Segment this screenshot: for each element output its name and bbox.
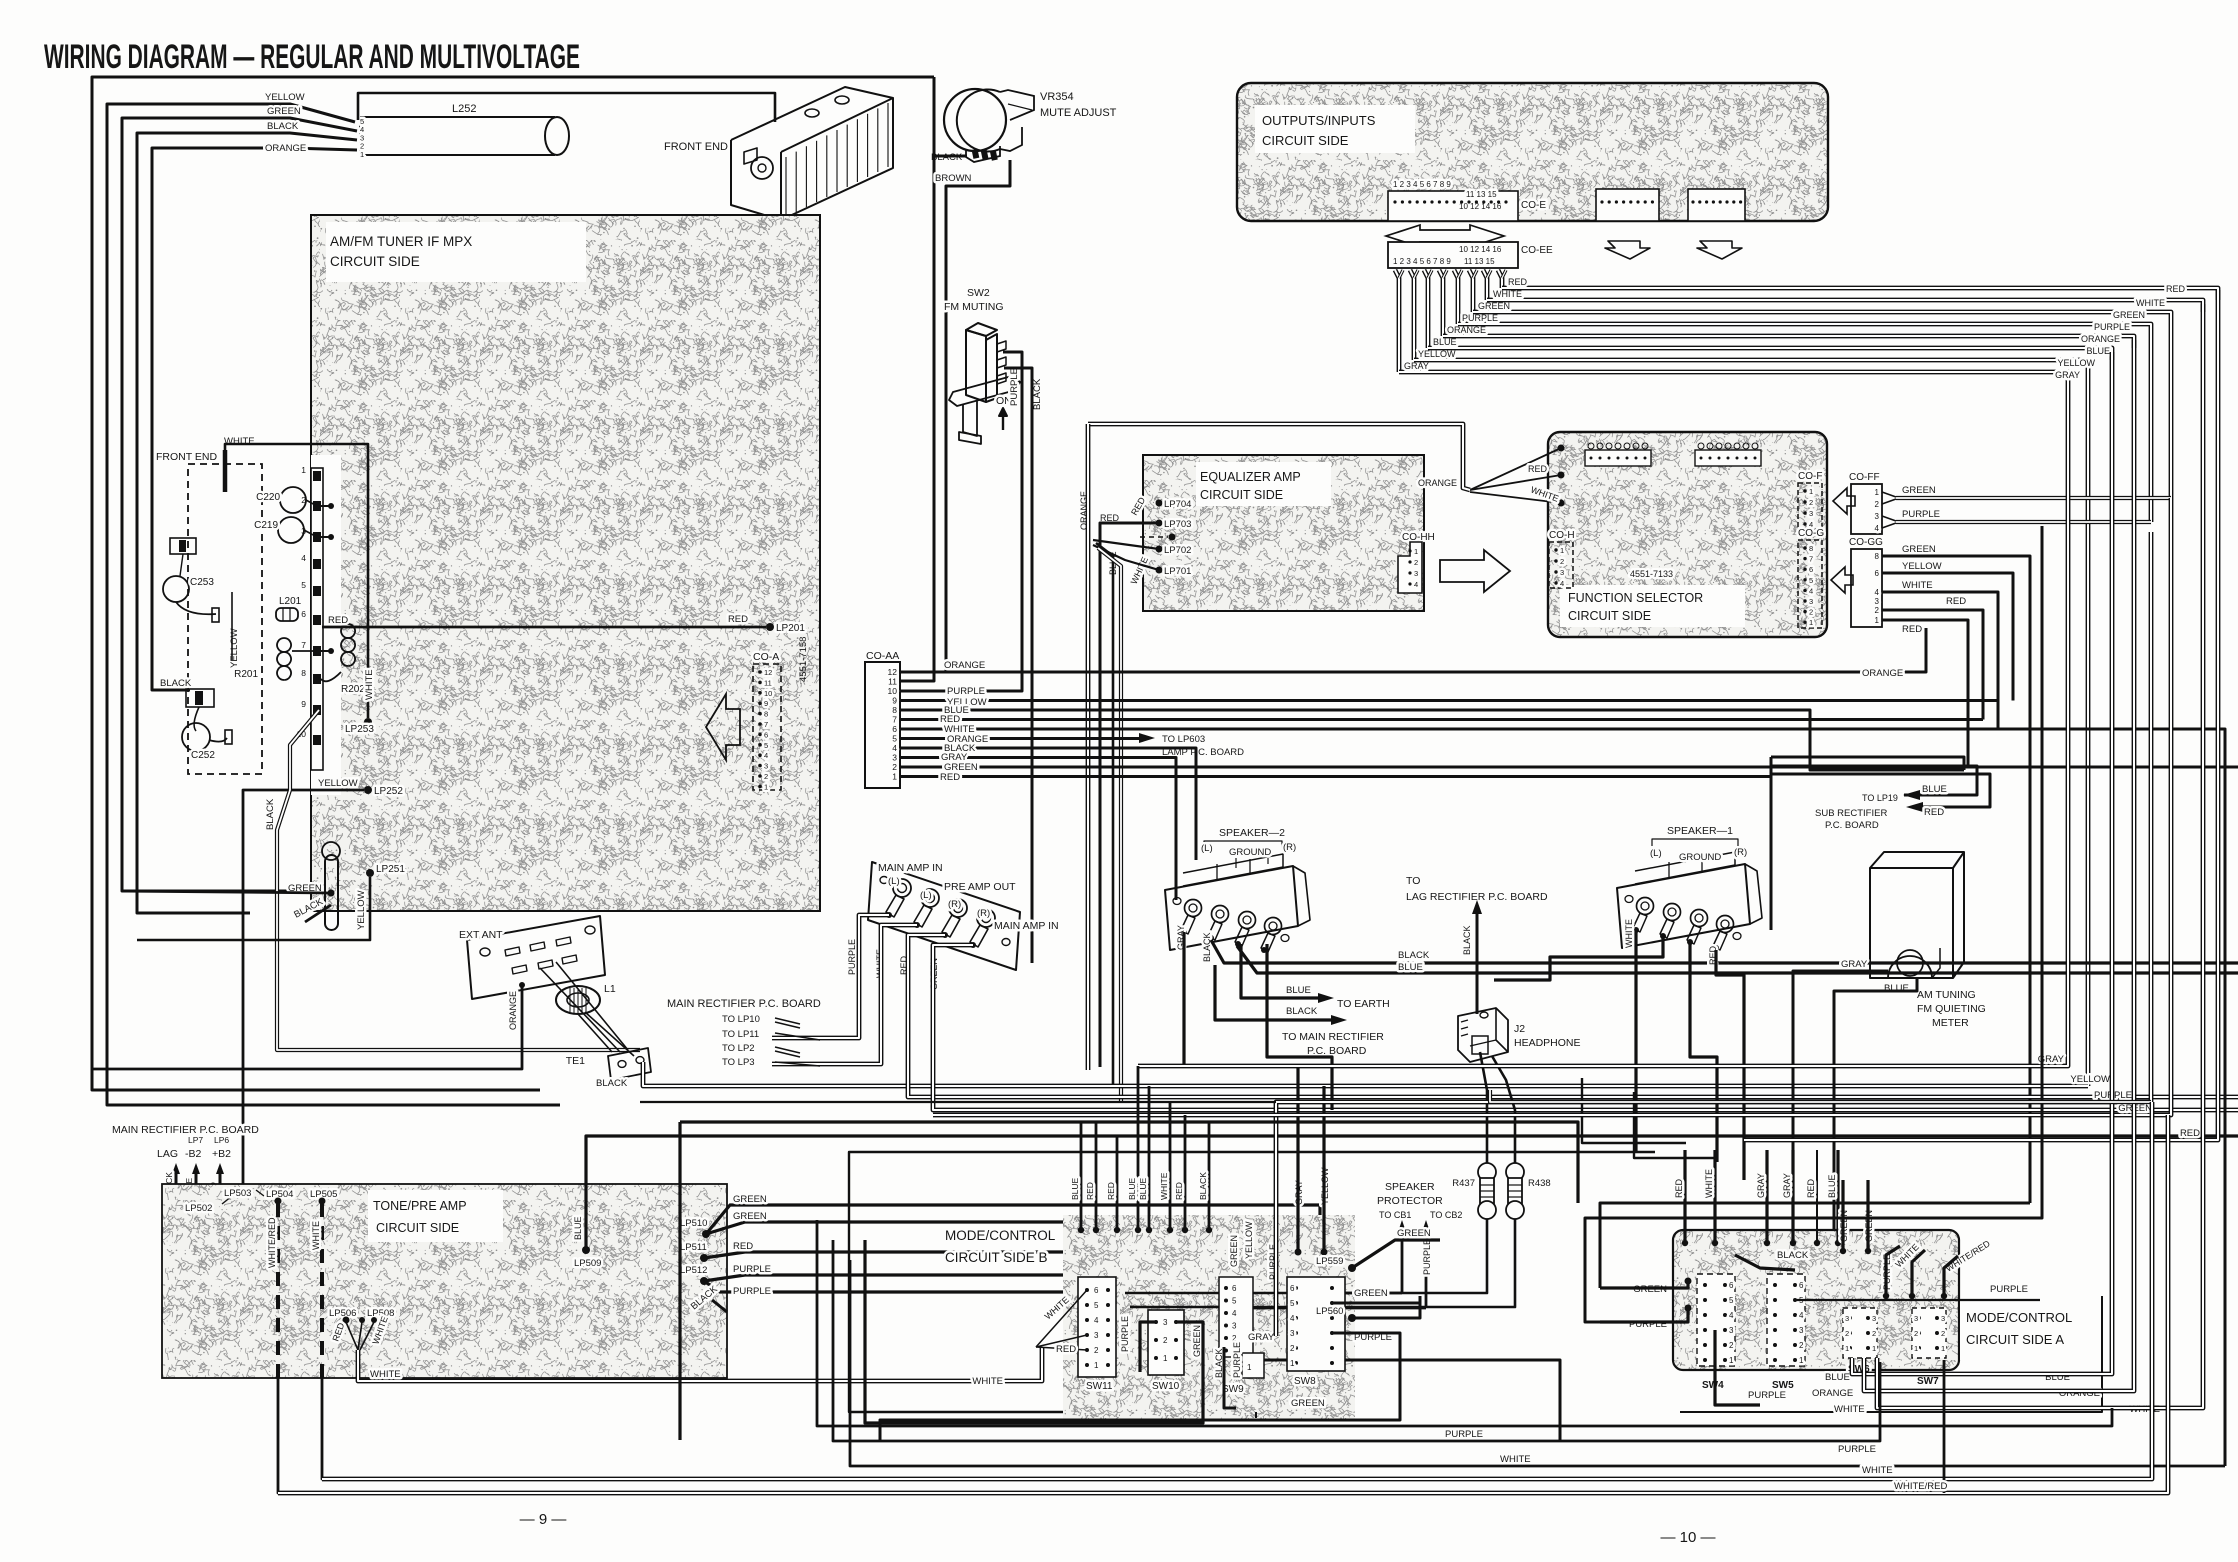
- svg-text:(L): (L): [1201, 843, 1213, 854]
- svg-text:GROUND: GROUND: [1229, 847, 1271, 858]
- capacitor C252: [182, 723, 210, 751]
- svg-text:AM TUNING: AM TUNING: [1917, 989, 1976, 1001]
- svg-text:GREEN: GREEN: [733, 1194, 767, 1205]
- svg-text:BLUE: BLUE: [1827, 1174, 1837, 1198]
- thick bus y1122: [680, 1122, 1578, 1203]
- wire white CO-AA pin6: [900, 729, 2225, 1466]
- svg-text:4551-7133: 4551-7133: [1630, 569, 1673, 579]
- wire yellow CO-GG: [1882, 573, 2013, 701]
- block arrow right: [1440, 550, 1510, 592]
- wire red CO-AA pin1: [900, 775, 1771, 778]
- wire red jack3: [908, 935, 2238, 1097]
- svg-text:1: 1: [1290, 1359, 1295, 1368]
- svg-text:C252: C252: [191, 750, 215, 761]
- svg-text:RED: RED: [328, 615, 348, 626]
- svg-text:BLACK: BLACK: [1198, 1172, 1208, 1200]
- white wire fan lp506-508: [346, 1322, 358, 1350]
- svg-text:3: 3: [1729, 1326, 1734, 1335]
- svg-text:6: 6: [764, 730, 768, 739]
- svg-text:WHITE: WHITE: [1493, 289, 1522, 299]
- svg-text:GRAY: GRAY: [1841, 959, 1868, 970]
- svg-text:PURPLE: PURPLE: [1009, 368, 1020, 406]
- white wire front-end pin to LP253: [223, 450, 228, 492]
- svg-text:+B2: +B2: [212, 1148, 231, 1160]
- svg-text:BLUE: BLUE: [1825, 1372, 1850, 1383]
- wire gray from CO-EE: [1395, 270, 1399, 372]
- svg-text:6: 6: [892, 724, 897, 734]
- svg-text:CIRCUIT SIDE: CIRCUIT SIDE: [1568, 609, 1651, 623]
- svg-text:PURPLE: PURPLE: [947, 686, 985, 697]
- svg-text:PURPLE: PURPLE: [733, 1264, 771, 1275]
- svg-text:ORANGE: ORANGE: [1447, 325, 1486, 335]
- svg-text:6: 6: [1094, 1286, 1099, 1295]
- svg-text:GREEN: GREEN: [2113, 310, 2145, 320]
- capacitor C219: [278, 517, 304, 543]
- svg-text:2: 2: [1560, 557, 1564, 566]
- svg-text:2: 2: [1809, 608, 1813, 617]
- rca jack 1: [893, 879, 911, 897]
- wire black CO-AA pin4: [900, 748, 1196, 860]
- svg-text:BLUE: BLUE: [2086, 346, 2110, 356]
- wire purple SW2 to CO-AA pin10: [900, 352, 1022, 691]
- wire red CO-GG pin1: [1882, 620, 1968, 767]
- svg-text:RED: RED: [1674, 1178, 1684, 1198]
- svg-text:RED: RED: [1806, 1178, 1816, 1198]
- mode/control B board texture: [1063, 1215, 1355, 1420]
- svg-text:LP6: LP6: [214, 1135, 229, 1145]
- svg-text:12: 12: [764, 668, 772, 677]
- ext ant bracket plate: [467, 916, 605, 999]
- wire green jack4: [933, 945, 2238, 1110]
- svg-text:1: 1: [1809, 487, 1813, 496]
- svg-text:2: 2: [764, 772, 768, 781]
- svg-text:2: 2: [1290, 1344, 1295, 1353]
- wire gray CO-AA pin3: [900, 758, 1176, 901]
- svg-text:(R): (R): [948, 899, 961, 910]
- wire down left: [1770, 757, 1773, 930]
- svg-text:BLUE: BLUE: [1922, 784, 1947, 795]
- wire purple CO-FF: [1882, 516, 1896, 521]
- svg-text:TO CB1: TO CB1: [1379, 1210, 1411, 1220]
- wire black to earth arrow: [1215, 965, 1332, 1020]
- wire white CO-GG: [1882, 592, 1998, 729]
- svg-text:2: 2: [1914, 1329, 1918, 1338]
- svg-text:YELLOW: YELLOW: [1244, 1221, 1254, 1259]
- svg-text:C253: C253: [190, 577, 214, 588]
- svg-text:CO-AA: CO-AA: [866, 650, 899, 662]
- svg-text:2: 2: [1414, 558, 1418, 567]
- svg-text:GRAY: GRAY: [1782, 1173, 1792, 1198]
- svg-text:MAIN AMP IN: MAIN AMP IN: [994, 920, 1059, 932]
- lamp LP701: [1156, 567, 1163, 574]
- wires sw5 to right: [1795, 1299, 2040, 1301]
- wire blue to earth arrow: [1241, 944, 1319, 998]
- svg-text:11 13 15: 11 13 15: [1466, 190, 1497, 199]
- wire green sw8 pin5: [1332, 1296, 1420, 1303]
- svg-text:PURPLE: PURPLE: [733, 1286, 771, 1297]
- svg-text:RED: RED: [2166, 284, 2186, 294]
- svg-text:LAG: LAG: [157, 1148, 178, 1160]
- connector CO-E: [1388, 191, 1518, 221]
- svg-text:3: 3: [1875, 597, 1880, 606]
- svg-text:SUB RECTIFIER: SUB RECTIFIER: [1815, 808, 1887, 819]
- svg-text:RED: RED: [1085, 1182, 1095, 1200]
- svg-text:WHITE: WHITE: [1624, 919, 1634, 948]
- svg-text:1: 1: [892, 772, 897, 782]
- svg-text:1: 1: [360, 150, 364, 159]
- front end dashed box: [188, 464, 262, 774]
- svg-text:4: 4: [1290, 1314, 1295, 1323]
- svg-text:CO-H: CO-H: [1549, 530, 1575, 541]
- board mode/control circuit side A: [1673, 1230, 1959, 1370]
- svg-text:BLUE: BLUE: [1398, 962, 1423, 973]
- svg-text:SPEAKER—2: SPEAKER—2: [1219, 827, 1285, 839]
- svg-text:PURPLE: PURPLE: [1422, 1239, 1432, 1275]
- svg-text:WHITE: WHITE: [311, 1221, 321, 1250]
- svg-text:WHITE/RED: WHITE/RED: [1894, 1481, 1947, 1492]
- wire red pin6 to LP201: [322, 626, 766, 629]
- svg-text:LP703: LP703: [1164, 519, 1191, 530]
- block arrow left: [706, 694, 740, 760]
- connector SW4: [1697, 1274, 1735, 1366]
- svg-text:R438: R438: [1528, 1178, 1551, 1189]
- svg-text:4: 4: [301, 553, 306, 563]
- svg-text:GREEN: GREEN: [267, 106, 301, 117]
- svg-text:WHITE: WHITE: [1902, 580, 1933, 591]
- svg-text:6: 6: [1875, 569, 1880, 578]
- wire yellow lp251 down: [137, 877, 370, 940]
- svg-text:2: 2: [1875, 500, 1880, 509]
- wire green CO-AA pin2: [900, 766, 2238, 769]
- svg-text:3: 3: [1914, 1314, 1918, 1323]
- svg-text:CIRCUIT SIDE B: CIRCUIT SIDE B: [945, 1250, 1048, 1265]
- wire purple from CO-EE: [1454, 270, 1458, 324]
- svg-text:1: 1: [1799, 1356, 1804, 1365]
- wire red speaker1: [1716, 950, 1744, 1180]
- svg-text:1: 1: [1872, 1344, 1876, 1353]
- svg-text:2: 2: [1872, 1329, 1876, 1338]
- white fan wires SW11: [1036, 1290, 1087, 1347]
- svg-text:AM/FM TUNER IF MPX: AM/FM TUNER IF MPX: [330, 234, 472, 249]
- capacitor C253: [163, 576, 189, 602]
- wire green in: [1600, 1281, 1688, 1288]
- svg-text:5: 5: [1232, 1297, 1237, 1306]
- wire white from CO-EE: [1483, 270, 1487, 300]
- wire red right bundle: [1744, 290, 2218, 1140]
- svg-text:SW2: SW2: [967, 287, 990, 299]
- svg-text:4: 4: [1560, 579, 1564, 588]
- svg-text:LP252: LP252: [374, 786, 403, 797]
- svg-text:FUNCTION SELECTOR: FUNCTION SELECTOR: [1568, 591, 1703, 605]
- svg-text:GRAY: GRAY: [1248, 1332, 1275, 1343]
- svg-text:SW7: SW7: [1917, 1376, 1939, 1387]
- mode/control circuit side B outline box: [849, 1152, 1655, 1412]
- svg-text:BLACK: BLACK: [160, 678, 192, 689]
- svg-text:8: 8: [892, 705, 897, 715]
- svg-text:4: 4: [764, 751, 768, 760]
- svg-text:L201: L201: [279, 596, 302, 607]
- orange vertical wire at equalizer left: [1086, 424, 1091, 1070]
- dashed wire white/red: [276, 1203, 280, 1378]
- lamp LP560: [1348, 1314, 1356, 1322]
- wire orange to L252 pin2: [152, 148, 357, 690]
- svg-text:PROTECTOR: PROTECTOR: [1377, 1195, 1443, 1207]
- svg-text:TO EARTH: TO EARTH: [1337, 998, 1390, 1010]
- svg-text:GRAY: GRAY: [2055, 370, 2080, 380]
- svg-text:MAIN RECTIFIER P.C. BOARD: MAIN RECTIFIER P.C. BOARD: [112, 1124, 259, 1136]
- wire green lp510 b: [706, 1222, 1298, 1290]
- connector SW8: [1287, 1277, 1345, 1371]
- dashed trace: [1140, 536, 1168, 538]
- svg-text:LP560: LP560: [1316, 1306, 1343, 1317]
- svg-text:ORANGE: ORANGE: [508, 991, 518, 1030]
- svg-text:3: 3: [1809, 509, 1813, 518]
- svg-text:RED: RED: [733, 1241, 753, 1252]
- svg-text:10: 10: [888, 686, 898, 696]
- svg-text:WHITE: WHITE: [1862, 1465, 1893, 1476]
- svg-text:9: 9: [892, 696, 897, 706]
- svg-text:GREEN: GREEN: [1478, 301, 1510, 311]
- lamp LP510: [702, 1230, 710, 1238]
- svg-text:CO-G: CO-G: [1798, 528, 1824, 539]
- svg-text:LP506: LP506: [329, 1308, 356, 1319]
- wire headphone to right long: [1490, 1090, 2151, 1102]
- svg-text:HEADPHONE: HEADPHONE: [1514, 1037, 1581, 1049]
- bus white y1466: [850, 1260, 2225, 1466]
- lamp LP704: [1156, 500, 1163, 507]
- svg-text:(L): (L): [888, 876, 900, 887]
- svg-text:YELLOW: YELLOW: [318, 778, 358, 789]
- wire orange CO-AA pin12: [900, 628, 1926, 672]
- svg-text:YELLOW: YELLOW: [2057, 358, 2095, 368]
- wire blue meter: [1834, 978, 1917, 1230]
- svg-text:YELLOW: YELLOW: [356, 890, 367, 930]
- wire blue speaker2 to right: [1237, 946, 2238, 973]
- wire black SW2 down: [1004, 368, 1032, 963]
- block arrow up between CO-E and CO-EE: [1386, 225, 1504, 247]
- svg-text:BLUE: BLUE: [1070, 1177, 1080, 1200]
- svg-text:8: 8: [301, 668, 306, 678]
- svg-text:3: 3: [1163, 1318, 1168, 1327]
- wire blue lp509 up right: [586, 1136, 2238, 1250]
- wire harness loop outer: [92, 77, 934, 1090]
- svg-text:YELLOW: YELLOW: [229, 628, 240, 668]
- svg-text:2: 2: [892, 762, 897, 772]
- svg-text:WHITE: WHITE: [1834, 1404, 1865, 1415]
- top stub wires mode A: [1683, 1150, 1686, 1243]
- wire blue right bundle to mode A: [1852, 352, 2112, 1374]
- svg-text:12: 12: [888, 667, 898, 677]
- lamp LP702: [1156, 546, 1163, 553]
- fs connector strip 1: [1585, 450, 1651, 466]
- svg-text:WHITE: WHITE: [224, 436, 255, 447]
- svg-text:BLACK: BLACK: [1398, 950, 1430, 961]
- connector CO-EE: [1388, 242, 1518, 268]
- svg-text:3: 3: [1290, 1329, 1295, 1338]
- svg-text:11 13 15: 11 13 15: [1464, 257, 1495, 266]
- svg-text:WHITE: WHITE: [1704, 1169, 1714, 1198]
- svg-text:3: 3: [1875, 512, 1880, 521]
- wires sw9 region: [1224, 1347, 1236, 1408]
- wire gray sw8: [1296, 1066, 1299, 1252]
- svg-text:VR354: VR354: [1040, 91, 1074, 103]
- wire orange CO-AA pin5 to lamp pc board: [900, 737, 1140, 740]
- svg-text:LP502: LP502: [185, 1203, 212, 1214]
- wire purple in: [1600, 1308, 1688, 1322]
- svg-text:SPEAKER—1: SPEAKER—1: [1667, 825, 1733, 837]
- svg-text:YELLOW: YELLOW: [1902, 561, 1942, 572]
- arrow to CB2: [1425, 1230, 1428, 1308]
- wire orange ext ant: [93, 985, 522, 1069]
- svg-text:EQUALIZER AMP: EQUALIZER AMP: [1200, 470, 1301, 484]
- svg-text:1: 1: [1729, 1356, 1734, 1365]
- svg-text:CIRCUIT SIDE: CIRCUIT SIDE: [376, 1221, 459, 1235]
- svg-text:5: 5: [892, 734, 897, 744]
- wire black speaker2 to right: [1211, 940, 2238, 963]
- svg-text:2: 2: [1809, 498, 1813, 507]
- svg-text:BLACK: BLACK: [265, 798, 276, 830]
- wire yellow from CO-EE: [1410, 270, 1414, 360]
- wire yellow LP252: [243, 790, 364, 1198]
- svg-text:PURPLE: PURPLE: [1232, 1342, 1242, 1378]
- svg-text:MUTE ADJUST: MUTE ADJUST: [1040, 107, 1117, 119]
- svg-text:CO-E: CO-E: [1521, 200, 1546, 211]
- svg-text:4: 4: [1729, 1311, 1734, 1320]
- svg-text:1: 1: [1163, 1354, 1168, 1363]
- svg-text:4: 4: [1094, 1316, 1099, 1325]
- svg-text:TO LP10: TO LP10: [722, 1014, 760, 1025]
- svg-text:RED: RED: [1106, 1182, 1116, 1200]
- svg-text:TO MAIN RECTIFIER: TO MAIN RECTIFIER: [1282, 1031, 1384, 1043]
- svg-text:1: 1: [1914, 1344, 1918, 1353]
- svg-text:RED: RED: [1174, 1182, 1184, 1200]
- svg-text:5: 5: [764, 741, 768, 750]
- white wire pins 9-10 down (black outline): [277, 710, 640, 1050]
- svg-text:LP559: LP559: [1316, 1256, 1343, 1267]
- svg-text:2: 2: [1094, 1346, 1099, 1355]
- block arrow down 2: [1697, 241, 1742, 259]
- lamp LP703: [1156, 520, 1163, 527]
- svg-text:MAIN AMP IN: MAIN AMP IN: [878, 862, 943, 874]
- connector strip pins 1-10: [311, 468, 323, 770]
- svg-text:5: 5: [1094, 1301, 1099, 1310]
- black wire bundle from sw5: [1735, 1255, 1795, 1270]
- svg-text:4: 4: [1232, 1309, 1237, 1318]
- svg-text:1: 1: [764, 782, 768, 791]
- wire green lp251: [122, 891, 331, 893]
- svg-text:GREEN: GREEN: [1291, 1398, 1325, 1409]
- svg-text:RED: RED: [2180, 1128, 2200, 1139]
- svg-text:3: 3: [1232, 1322, 1237, 1331]
- svg-text:OUTPUTS/INPUTS: OUTPUTS/INPUTS: [1262, 113, 1376, 128]
- svg-text:WHITE: WHITE: [1159, 1172, 1169, 1200]
- black component near C252: [186, 689, 214, 707]
- wires from J2 down to resistors: [1480, 1052, 1487, 1163]
- ON arrow: [1002, 410, 1004, 430]
- svg-text:PURPLE: PURPLE: [2094, 322, 2130, 332]
- svg-text:FRONT END: FRONT END: [664, 141, 728, 153]
- svg-text:6: 6: [1809, 565, 1813, 574]
- svg-text:— 10 —: — 10 —: [1660, 1529, 1715, 1546]
- svg-text:RED: RED: [1508, 277, 1528, 287]
- svg-text:4551-7158: 4551-7158: [798, 637, 809, 682]
- svg-text:2: 2: [1163, 1336, 1168, 1345]
- svg-text:LP510: LP510: [680, 1218, 707, 1229]
- pad dot: [1169, 534, 1176, 541]
- wire blue CO-AA pin8: [900, 710, 1964, 770]
- svg-text:GREEN: GREEN: [1354, 1288, 1388, 1299]
- wire green lp510 a: [706, 1205, 1320, 1262]
- svg-text:2: 2: [1232, 1334, 1237, 1343]
- svg-text:5: 5: [301, 580, 306, 590]
- svg-text:BLACK: BLACK: [1462, 925, 1472, 955]
- svg-text:8: 8: [764, 710, 768, 719]
- fs connector strip 2: [1695, 450, 1761, 466]
- svg-text:6: 6: [1799, 1281, 1804, 1290]
- svg-text:EXT ANT: EXT ANT: [459, 929, 503, 941]
- svg-text:RED: RED: [1902, 624, 1922, 635]
- svg-text:4: 4: [1799, 1311, 1804, 1320]
- svg-text:LP512: LP512: [680, 1265, 707, 1276]
- wire white jack2: [772, 925, 917, 1064]
- svg-text:GREEN: GREEN: [1902, 485, 1936, 496]
- svg-text:ORANGE: ORANGE: [2081, 334, 2120, 344]
- svg-text:-B2: -B2: [185, 1148, 202, 1160]
- speaker terminal speaker-2: [1165, 866, 1298, 950]
- svg-text:BLUE: BLUE: [1286, 985, 1311, 996]
- arrow CO-G: [1831, 567, 1853, 593]
- svg-text:L1: L1: [604, 983, 616, 995]
- nested corner feeds mode A: [1582, 1078, 1686, 1143]
- svg-text:MODE/CONTROL: MODE/CONTROL: [1966, 1310, 2072, 1325]
- svg-text:PRE AMP OUT: PRE AMP OUT: [944, 881, 1016, 893]
- arrow to CB1: [1401, 1230, 1404, 1293]
- connector SW10: [1148, 1310, 1184, 1375]
- svg-text:10 12 14 16: 10 12 14 16: [1459, 245, 1502, 254]
- orange/red/white fan to function selector: [1558, 445, 1565, 452]
- svg-text:MODE/CONTROL: MODE/CONTROL: [945, 1228, 1056, 1243]
- svg-text:P.C. BOARD: P.C. BOARD: [1825, 820, 1879, 831]
- svg-text:10 12 14 16: 10 12 14 16: [1459, 202, 1502, 211]
- svg-text:7: 7: [764, 720, 768, 729]
- wire white equalizer down: [1098, 548, 1121, 1102]
- svg-text:PURPLE: PURPLE: [1902, 509, 1940, 520]
- lamp LP559: [1348, 1264, 1356, 1272]
- svg-text:TO CB2: TO CB2: [1430, 1210, 1462, 1220]
- svg-text:1: 1: [1247, 1363, 1252, 1372]
- svg-text:ORANGE: ORANGE: [265, 143, 306, 154]
- wire yellow CO-AA pin9: [900, 699, 1998, 702]
- svg-text:WIRING DIAGRAM — REGULAR AND M: WIRING DIAGRAM — REGULAR AND MULTIVOLTAG…: [44, 38, 580, 76]
- board function selector circuit side: [1548, 432, 1827, 637]
- svg-text:3: 3: [1845, 1314, 1849, 1323]
- svg-text:CO-A: CO-A: [753, 651, 779, 663]
- svg-text:RED: RED: [940, 772, 960, 783]
- svg-text:GROUND: GROUND: [1679, 852, 1721, 863]
- svg-text:5: 5: [1809, 576, 1813, 585]
- svg-text:WHITE: WHITE: [972, 1376, 1003, 1387]
- svg-text:9: 9: [764, 699, 768, 708]
- red arrow: [1906, 802, 1923, 812]
- svg-text:3: 3: [764, 762, 768, 771]
- svg-text:LP509: LP509: [574, 1258, 601, 1269]
- svg-text:FM MUTING: FM MUTING: [944, 301, 1004, 313]
- wire green lp559: [1352, 1240, 1440, 1268]
- svg-text:P.C. BOARD: P.C. BOARD: [1307, 1045, 1367, 1057]
- mode B stub wires from bus: [1080, 1122, 1083, 1230]
- svg-text:L252: L252: [452, 103, 476, 115]
- wire purple sw8 pin2: [880, 1333, 1400, 1441]
